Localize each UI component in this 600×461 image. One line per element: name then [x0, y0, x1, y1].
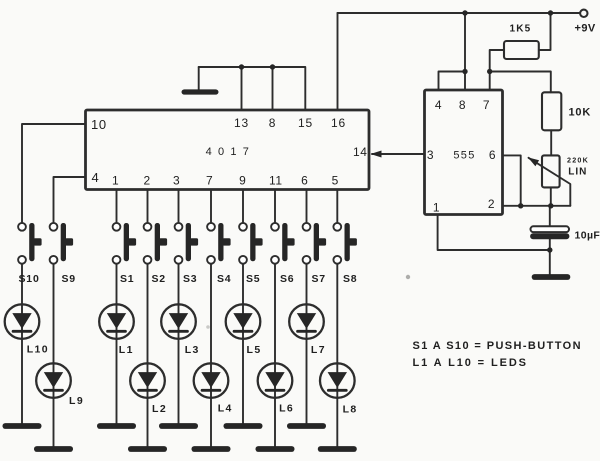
- svg-text:L7: L7: [311, 344, 326, 356]
- svg-text:L1: L1: [119, 344, 134, 356]
- svg-text:10: 10: [91, 117, 107, 132]
- svg-text:7: 7: [206, 174, 213, 188]
- svg-text:13: 13: [234, 116, 249, 130]
- svg-text:S10: S10: [19, 273, 40, 285]
- svg-text:1K5: 1K5: [510, 24, 532, 35]
- svg-text:S6: S6: [280, 273, 294, 285]
- svg-text:8: 8: [459, 98, 466, 112]
- svg-text:555: 555: [453, 150, 475, 162]
- svg-text:S9: S9: [62, 273, 76, 285]
- svg-text:L3: L3: [185, 344, 200, 356]
- svg-text:S4: S4: [217, 273, 231, 285]
- svg-text:S8: S8: [343, 273, 357, 285]
- svg-text:7: 7: [483, 98, 490, 112]
- svg-text:LIN: LIN: [568, 167, 587, 178]
- svg-text:4: 4: [435, 98, 442, 112]
- svg-text:S5: S5: [246, 273, 260, 285]
- svg-text:L1 A L10 = LEDS: L1 A L10 = LEDS: [413, 357, 528, 369]
- svg-text:S2: S2: [152, 273, 166, 285]
- svg-text:S7: S7: [312, 273, 326, 285]
- svg-text:L9: L9: [69, 395, 84, 407]
- svg-text:L6: L6: [279, 403, 294, 415]
- svg-text:2: 2: [144, 174, 151, 188]
- svg-text:10K: 10K: [569, 107, 592, 119]
- svg-text:16: 16: [331, 116, 346, 130]
- svg-text:6: 6: [301, 174, 308, 188]
- svg-text:S1: S1: [120, 273, 134, 285]
- svg-text:4: 4: [92, 170, 100, 185]
- svg-text:+9V: +9V: [575, 23, 596, 35]
- svg-text:3: 3: [173, 174, 180, 188]
- svg-text:10µF: 10µF: [575, 230, 600, 242]
- svg-text:220K: 220K: [567, 156, 589, 165]
- svg-text:L10: L10: [27, 344, 49, 356]
- svg-text:L2: L2: [152, 403, 167, 415]
- svg-text:5: 5: [332, 174, 339, 188]
- svg-text:15: 15: [298, 116, 313, 130]
- svg-text:8: 8: [269, 116, 276, 130]
- svg-text:4 0 1 7: 4 0 1 7: [206, 146, 251, 158]
- svg-text:1: 1: [112, 174, 119, 188]
- svg-text:L5: L5: [247, 344, 262, 356]
- svg-text:S3: S3: [183, 273, 197, 285]
- svg-text:L4: L4: [218, 403, 233, 415]
- svg-text:9: 9: [239, 174, 246, 188]
- svg-text:1: 1: [433, 201, 440, 215]
- svg-text:11: 11: [269, 174, 283, 188]
- svg-text:14: 14: [353, 145, 368, 159]
- svg-text:S1 A S10 = PUSH-BUTTON: S1 A S10 = PUSH-BUTTON: [413, 340, 582, 352]
- svg-text:L8: L8: [343, 404, 358, 416]
- svg-text:2: 2: [488, 197, 495, 211]
- svg-text:3: 3: [427, 148, 434, 162]
- svg-text:6: 6: [489, 148, 496, 162]
